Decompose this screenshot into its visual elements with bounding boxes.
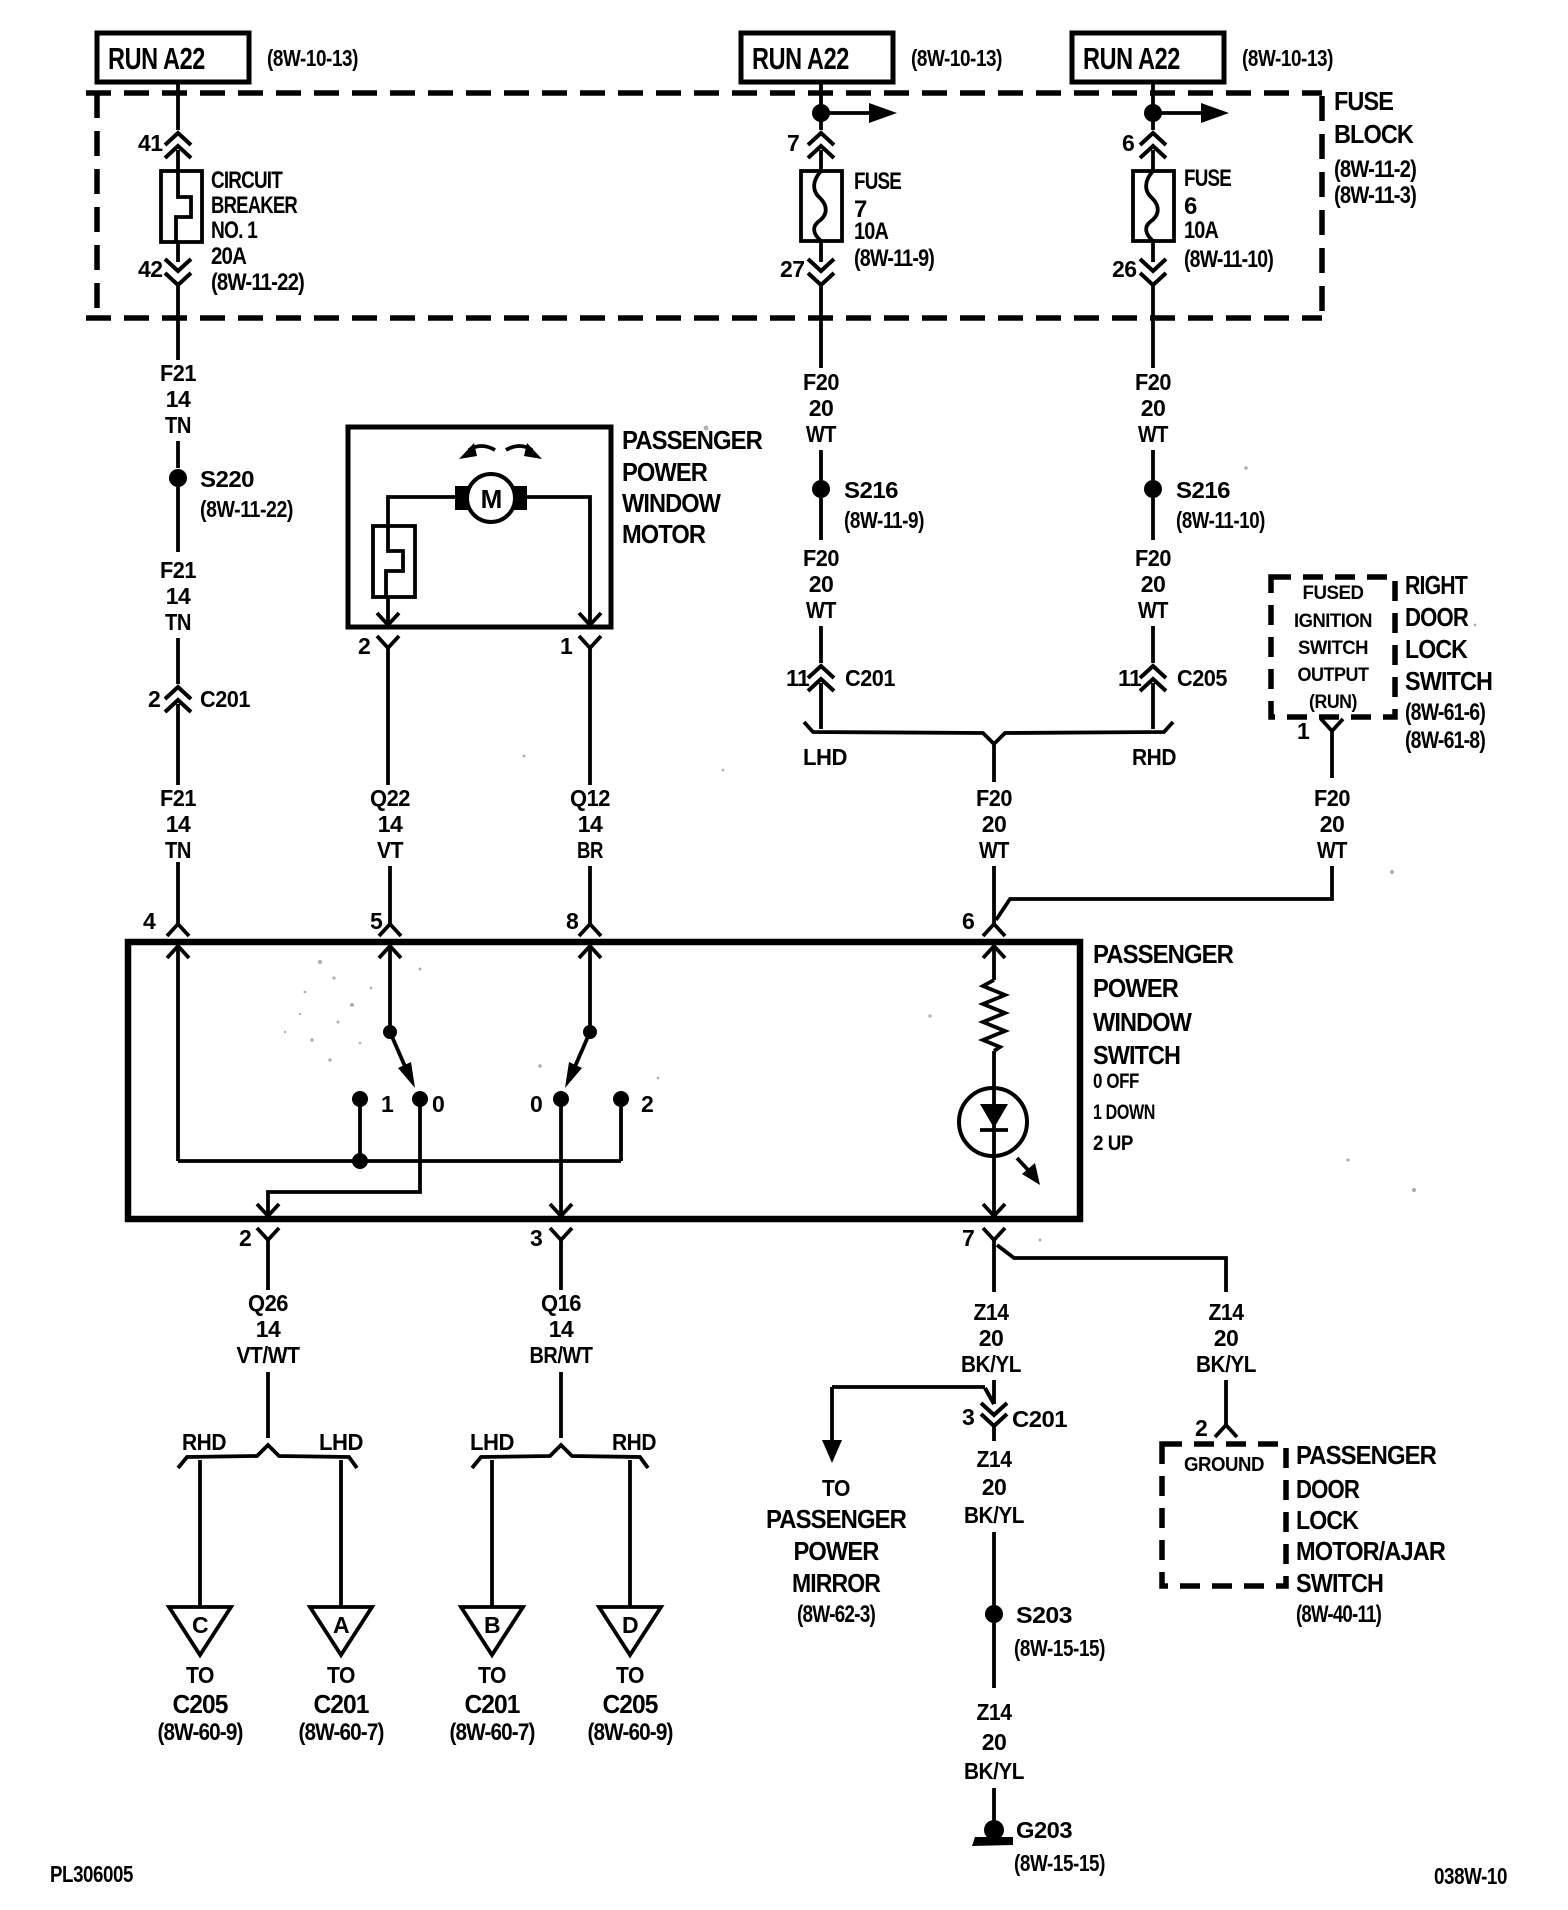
svg-text:3: 3 (530, 1225, 542, 1251)
svg-text:MOTOR: MOTOR (622, 519, 706, 549)
connector chevron pin 7 (808, 133, 834, 158)
wire (588, 866, 592, 924)
svg-text:BK/YL: BK/YL (964, 1758, 1024, 1784)
svg-text:Z14: Z14 (1209, 1299, 1245, 1325)
svg-text:S216: S216 (844, 477, 898, 503)
svg-text:TN: TN (165, 609, 191, 635)
svg-text:M: M (481, 484, 502, 514)
svg-text:FUSED: FUSED (1303, 583, 1364, 604)
wire resistor to LED (992, 1051, 996, 1090)
wire (992, 1532, 996, 1606)
svg-text:RUN A22: RUN A22 (752, 41, 849, 76)
svg-text:BK/YL: BK/YL (964, 1502, 1024, 1528)
svg-text:SWITCH: SWITCH (1405, 666, 1492, 696)
wire (819, 450, 823, 480)
connector chevron pin 42 (165, 259, 191, 285)
svg-text:Q22: Q22 (370, 785, 410, 811)
svg-text:(8W-40-11): (8W-40-11) (1296, 1601, 1381, 1628)
switch 1 pivot dot (383, 1025, 397, 1039)
wire (819, 150, 823, 171)
wire F20 label stack (fuse 7 branch) (803, 369, 839, 447)
svg-text:2: 2 (358, 633, 370, 659)
svg-text:(8W-10-13): (8W-10-13) (911, 45, 1002, 71)
svg-text:7: 7 (787, 130, 799, 156)
svg-text:PL306005: PL306005 (50, 1861, 134, 1887)
svg-text:D: D (622, 1612, 638, 1638)
svg-text:(8W-61-8): (8W-61-8) (1405, 727, 1485, 754)
svg-text:(8W-11-2): (8W-11-2) (1334, 156, 1416, 183)
svg-text:41: 41 (138, 130, 163, 156)
switch 2 arm with arrowhead (565, 1032, 590, 1088)
node RUN A22 box 1 (97, 33, 249, 82)
wire to terminal D (628, 1460, 632, 1606)
wire (1151, 241, 1155, 262)
motor rotation arrows (459, 443, 542, 459)
svg-text:C201: C201 (465, 1689, 521, 1719)
motor internal wire to pin 2 (386, 597, 390, 624)
wire pin 6 to resistor (992, 946, 996, 980)
contact 2 dot (613, 1091, 629, 1107)
svg-text:SWITCH: SWITCH (1296, 1568, 1383, 1598)
svg-text:(8W-61-6): (8W-61-6) (1405, 699, 1485, 726)
feed arrow to right (821, 103, 897, 123)
motor pin 1 female connector (579, 636, 601, 664)
svg-text:6: 6 (1122, 130, 1134, 156)
switch 2 pivot dot (583, 1025, 597, 1039)
svg-text:DOOR: DOOR (1296, 1474, 1360, 1504)
svg-text:F20: F20 (1314, 785, 1350, 811)
svg-text:PASSENGER: PASSENGER (766, 1504, 907, 1534)
LHD/RHD merge brace (804, 722, 1173, 744)
right door lock switch label (1405, 570, 1492, 754)
wire contact 1 to bus (358, 1099, 362, 1161)
connector C201 pin 11 chevron (808, 666, 834, 691)
svg-text:F20: F20 (976, 785, 1012, 811)
svg-text:OUTPUT: OUTPUT (1298, 665, 1370, 686)
svg-text:TO: TO (616, 1662, 644, 1688)
pin 7 male arrow (983, 1204, 1005, 1216)
wire Z14 label stack (below C201) (964, 1446, 1024, 1528)
pin 5 female connector (379, 924, 401, 936)
pin 4 male arrow (167, 946, 189, 958)
svg-text:(8W-10-13): (8W-10-13) (267, 45, 358, 71)
illumination resistor (983, 980, 1005, 1051)
passenger door lock motor label (1296, 1440, 1446, 1628)
wire (1151, 450, 1155, 480)
svg-text:6: 6 (1184, 193, 1197, 220)
splice S203 (985, 1605, 1003, 1623)
svg-text:F20: F20 (1135, 369, 1171, 395)
branch arrow to passenger power mirror (822, 1387, 994, 1463)
wire (992, 1380, 996, 1404)
svg-text:LHD: LHD (319, 1429, 363, 1455)
wire (992, 1788, 996, 1822)
pin 5 male arrow (379, 946, 401, 958)
wire (176, 150, 180, 171)
svg-text:C205: C205 (173, 1689, 229, 1719)
pin 6 male arrow (983, 946, 1005, 958)
terminal C destination label (158, 1662, 243, 1746)
wire (176, 704, 180, 785)
junction dot (1144, 104, 1162, 122)
switch internal wire from pin 4 to bus (176, 946, 180, 1161)
svg-text:BREAKER: BREAKER (211, 192, 298, 219)
svg-text:RHD: RHD (1132, 744, 1176, 770)
svg-text:20: 20 (809, 571, 834, 597)
svg-text:Z14: Z14 (974, 1299, 1010, 1325)
motor M1 (455, 474, 527, 522)
svg-text:(8W-11-22): (8W-11-22) (211, 269, 304, 296)
svg-text:WT: WT (1138, 421, 1168, 447)
circuit breaker NO.1 (161, 171, 202, 242)
svg-text:4: 4 (143, 908, 156, 934)
motor internal wire left (388, 497, 455, 526)
svg-text:Z14: Z14 (977, 1699, 1013, 1725)
wire crossing fuse block edge (819, 285, 823, 368)
svg-text:F21: F21 (160, 360, 197, 386)
svg-text:Q12: Q12 (570, 785, 610, 811)
splice S203 label (1014, 1602, 1105, 1661)
svg-text:MIRROR: MIRROR (792, 1568, 881, 1598)
svg-text:PASSENGER: PASSENGER (1296, 1440, 1437, 1470)
svg-text:BK/YL: BK/YL (961, 1351, 1021, 1377)
splice S216 (right) (1144, 480, 1162, 498)
wire (1151, 626, 1155, 663)
svg-text:(8W-10-13): (8W-10-13) (1242, 45, 1333, 71)
wire F20 label stack 2 (left) (803, 545, 839, 623)
svg-text:Z14: Z14 (977, 1446, 1013, 1472)
node RUN A22 box 2 (741, 33, 893, 82)
svg-text:(RUN): (RUN) (1309, 692, 1357, 713)
svg-text:11: 11 (1118, 665, 1142, 691)
wire (1151, 498, 1155, 540)
feed arrow to right (1153, 103, 1229, 123)
svg-text:WT: WT (806, 421, 836, 447)
wire (1151, 150, 1155, 171)
svg-text:20: 20 (982, 1729, 1007, 1755)
wire Z14 label stack (to ground) (964, 1699, 1024, 1784)
wire from brace (992, 745, 996, 782)
wire to terminal C (198, 1460, 202, 1606)
wire (266, 1372, 270, 1438)
svg-text:S216: S216 (1176, 477, 1230, 503)
svg-text:20: 20 (982, 811, 1007, 837)
pin 8 male arrow (579, 946, 601, 958)
svg-text:20: 20 (1141, 571, 1166, 597)
svg-text:BR: BR (577, 837, 604, 863)
svg-text:F20: F20 (803, 545, 839, 571)
svg-text:42: 42 (138, 256, 163, 282)
svg-text:LHD: LHD (470, 1429, 514, 1455)
svg-text:27: 27 (780, 256, 805, 282)
terminal B triangle (461, 1607, 523, 1655)
wire Q26 label stack (237, 1290, 300, 1368)
svg-text:C201: C201 (314, 1689, 370, 1719)
terminal A destination label (299, 1662, 384, 1746)
svg-text:BR/WT: BR/WT (530, 1342, 593, 1368)
wire Q12 label stack (570, 785, 610, 863)
svg-text:TO: TO (186, 1662, 214, 1688)
motor pin 2 male arrow (377, 613, 399, 625)
svg-text:C205: C205 (1177, 665, 1228, 691)
right door lock switch dashed box (1271, 577, 1395, 717)
wire branch from pin 7 to door lock motor (997, 1245, 1226, 1292)
wire crossing fuse block edge (1151, 285, 1155, 368)
svg-text:SWITCH: SWITCH (1093, 1040, 1180, 1070)
svg-text:2: 2 (239, 1225, 251, 1251)
svg-text:(8W-60-9): (8W-60-9) (158, 1719, 243, 1746)
svg-text:20: 20 (982, 1474, 1007, 1500)
connector C201 chevron (165, 687, 191, 712)
wire (176, 638, 180, 684)
svg-text:RUN A22: RUN A22 (108, 41, 205, 76)
svg-text:(8W-60-7): (8W-60-7) (299, 1719, 384, 1746)
to passenger power mirror label (766, 1475, 907, 1628)
wire to terminal A (339, 1460, 343, 1606)
ground G203 label (1014, 1817, 1105, 1876)
svg-text:VT: VT (377, 837, 403, 863)
svg-text:F21: F21 (160, 785, 197, 811)
wire F20 label stack (fuse 6 branch) (1135, 369, 1171, 447)
svg-text:POWER: POWER (1093, 973, 1179, 1003)
svg-text:VT/WT: VT/WT (237, 1342, 300, 1368)
svg-text:WT: WT (979, 837, 1009, 863)
wire to brace (819, 683, 823, 729)
connector C201 pin 3 chevron (981, 1403, 1007, 1426)
svg-text:2 UP: 2 UP (1093, 1132, 1133, 1155)
svg-text:MOTOR/AJAR: MOTOR/AJAR (1296, 1536, 1446, 1566)
svg-text:A: A (333, 1612, 349, 1638)
wire from RUN A22 box2 (819, 82, 823, 130)
svg-text:14: 14 (256, 1316, 281, 1342)
wire (819, 498, 823, 540)
fuse block dashed outline (86, 93, 1322, 318)
svg-text:C205: C205 (603, 1689, 659, 1719)
pin 4 female connector (167, 924, 189, 936)
connector chevron pin 26 (1140, 259, 1166, 285)
svg-text:WT: WT (1138, 597, 1168, 623)
terminal B destination label (450, 1662, 535, 1746)
motor pin 1 male arrow (579, 613, 601, 625)
circuit breaker text (211, 167, 304, 296)
svg-text:1 DOWN: 1 DOWN (1093, 1101, 1155, 1124)
svg-text:8: 8 (566, 908, 579, 934)
pin 2 female connector (door lock motor) (1215, 1425, 1237, 1437)
svg-text:(8W-11-3): (8W-11-3) (1334, 182, 1416, 209)
svg-text:RIGHT: RIGHT (1405, 570, 1468, 600)
svg-text:(8W-60-9): (8W-60-9) (588, 1719, 673, 1746)
ground G203 symbol (972, 1820, 1013, 1846)
svg-text:LOCK: LOCK (1405, 634, 1468, 664)
node RUN A22 box 3 (1072, 33, 1224, 82)
svg-text:14: 14 (166, 583, 191, 609)
pin 2 male arrow (257, 1204, 279, 1216)
wire Q12 (588, 664, 592, 785)
svg-text:GROUND: GROUND (1184, 1454, 1264, 1476)
switch 1 arm with arrowhead (390, 1032, 415, 1088)
motor internal wire right (527, 497, 590, 624)
fuse 7 text (854, 168, 934, 272)
svg-text:14: 14 (166, 386, 191, 412)
svg-text:FUSE: FUSE (1184, 165, 1232, 192)
pin 2 female connector (257, 1228, 279, 1290)
svg-text:DOOR: DOOR (1405, 602, 1469, 632)
svg-text:NO. 1: NO. 1 (211, 217, 258, 244)
wire from door lock switch to pin 6 (996, 866, 1332, 920)
splice S216 left label (844, 477, 924, 533)
svg-text:(8W-11-10): (8W-11-10) (1176, 507, 1265, 533)
connector chevron pin 6 (1140, 133, 1166, 158)
svg-text:0 OFF: 0 OFF (1093, 1070, 1140, 1093)
LED lamp circle (959, 1088, 1027, 1156)
svg-text:7: 7 (962, 1225, 974, 1251)
fuse 6 (1133, 171, 1174, 241)
svg-text:TN: TN (165, 412, 191, 438)
svg-text:20: 20 (1141, 395, 1166, 421)
svg-text:6: 6 (962, 908, 974, 934)
svg-text:2: 2 (148, 686, 160, 712)
svg-text:BLOCK: BLOCK (1334, 119, 1414, 149)
svg-text:LHD: LHD (803, 744, 847, 770)
bus junction dot (352, 1153, 368, 1169)
svg-text:1: 1 (560, 633, 573, 659)
svg-text:10A: 10A (1184, 217, 1219, 244)
svg-text:POWER: POWER (622, 457, 708, 487)
connector chevron pin 41 (165, 133, 191, 158)
svg-text:F20: F20 (1135, 545, 1171, 571)
svg-text:WT: WT (1317, 837, 1347, 863)
svg-text:RUN A22: RUN A22 (1083, 41, 1180, 76)
svg-text:20: 20 (979, 1325, 1004, 1351)
wire F21 label stack 2 (160, 557, 197, 635)
wire F21 label stack 1 (160, 360, 197, 438)
svg-text:BK/YL: BK/YL (1196, 1351, 1256, 1377)
svg-text:C: C (192, 1612, 208, 1638)
svg-text:(8W-11-10): (8W-11-10) (1184, 246, 1273, 273)
svg-text:(8W-62-3): (8W-62-3) (797, 1601, 875, 1628)
svg-text:14: 14 (378, 811, 403, 837)
wire Q22 (386, 664, 390, 785)
svg-text:C201: C201 (1012, 1406, 1068, 1432)
motor title (622, 425, 763, 549)
wire crossing fuse block edge (176, 285, 180, 360)
wire (992, 866, 996, 924)
terminal D destination label (588, 1662, 673, 1746)
svg-text:CIRCUIT: CIRCUIT (211, 167, 283, 194)
svg-text:B: B (484, 1612, 500, 1638)
wire F20 label stack 2 (right) (1135, 545, 1171, 623)
svg-text:1: 1 (1297, 718, 1310, 744)
svg-text:14: 14 (166, 811, 191, 837)
wire (1224, 1380, 1228, 1425)
splice S220 (169, 469, 187, 487)
svg-text:SWITCH: SWITCH (1298, 638, 1368, 659)
wire LED to pin 7 (992, 1155, 996, 1216)
svg-text:2: 2 (1195, 1415, 1207, 1441)
wire Q22 label stack (370, 785, 410, 863)
svg-text:038W-10: 038W-10 (1434, 1863, 1507, 1889)
svg-text:TO: TO (478, 1662, 506, 1688)
svg-text:WT: WT (806, 597, 836, 623)
wire pin 5 to pivot (388, 946, 392, 1032)
svg-text:TO: TO (822, 1475, 850, 1501)
passenger power window switch box (128, 942, 1080, 1219)
svg-text:RHD: RHD (182, 1429, 226, 1455)
terminal D triangle (599, 1607, 661, 1655)
svg-text:1: 1 (381, 1091, 394, 1117)
internal bus wire (178, 1159, 621, 1163)
svg-text:(8W-60-7): (8W-60-7) (450, 1719, 535, 1746)
wire F20 label stack (door lock branch) (1314, 785, 1350, 863)
svg-text:20: 20 (1214, 1325, 1239, 1351)
svg-text:S220: S220 (200, 466, 254, 492)
LED illumination arrow (1017, 1158, 1040, 1185)
motor pin 2 female connector (377, 636, 399, 664)
wire (992, 1424, 996, 1441)
svg-text:14: 14 (549, 1316, 574, 1342)
wire to terminal B (490, 1460, 494, 1606)
svg-text:POWER: POWER (794, 1536, 880, 1566)
wire pin 8 to pivot (588, 946, 592, 1032)
junction dot (812, 104, 830, 122)
wire Q16 label stack (530, 1290, 593, 1368)
svg-text:F20: F20 (803, 369, 839, 395)
wire (176, 441, 180, 468)
splice S216 right label (1176, 477, 1265, 533)
svg-text:(8W-11-9): (8W-11-9) (844, 507, 924, 533)
svg-text:20: 20 (1320, 811, 1345, 837)
svg-text:0: 0 (530, 1091, 542, 1117)
svg-text:PASSENGER: PASSENGER (1093, 939, 1234, 969)
svg-text:FUSE: FUSE (1334, 86, 1394, 116)
svg-text:(8W-11-9): (8W-11-9) (854, 245, 934, 272)
connector C205 pin 11 chevron (1140, 666, 1166, 691)
fuse 7 (801, 171, 842, 241)
switch title (1093, 939, 1234, 1155)
svg-text:(8W-15-15): (8W-15-15) (1014, 1635, 1105, 1661)
scan noise speckles (284, 426, 1477, 1242)
wire (388, 866, 392, 924)
svg-text:S203: S203 (1016, 1602, 1072, 1628)
wire F20 label stack (merged) (976, 785, 1012, 863)
contact 1 dot (352, 1091, 368, 1107)
svg-text:(8W-11-22): (8W-11-22) (200, 496, 293, 522)
wire (992, 1623, 996, 1688)
pin 3 female connector (550, 1228, 572, 1290)
split brace Q16 (472, 1445, 648, 1468)
svg-text:(8W-15-15): (8W-15-15) (1014, 1850, 1105, 1876)
wire to brace (1151, 683, 1155, 729)
wire Z14 label stack (branch) (1196, 1299, 1256, 1377)
wire from RUN A22 box1 into fuse block (176, 82, 180, 130)
svg-text:IGNITION: IGNITION (1294, 611, 1372, 632)
contact 0 dot (right switch) (553, 1091, 569, 1107)
svg-text:20A: 20A (211, 243, 247, 270)
wire contact 2 to bus end (619, 1099, 623, 1161)
svg-text:3: 3 (962, 1404, 974, 1430)
svg-text:FUSE: FUSE (854, 168, 902, 195)
terminal A triangle (310, 1607, 372, 1655)
splice S216 (left) (812, 480, 830, 498)
pin 1 female connector (1321, 719, 1343, 778)
fuse block label (1334, 86, 1416, 209)
contact 0 dot (left switch) (412, 1091, 428, 1107)
svg-text:RHD: RHD (612, 1429, 656, 1455)
pin 6 female connector (983, 924, 1005, 936)
svg-text:5: 5 (370, 908, 383, 934)
wire (176, 862, 180, 924)
terminal C triangle (169, 1607, 231, 1655)
